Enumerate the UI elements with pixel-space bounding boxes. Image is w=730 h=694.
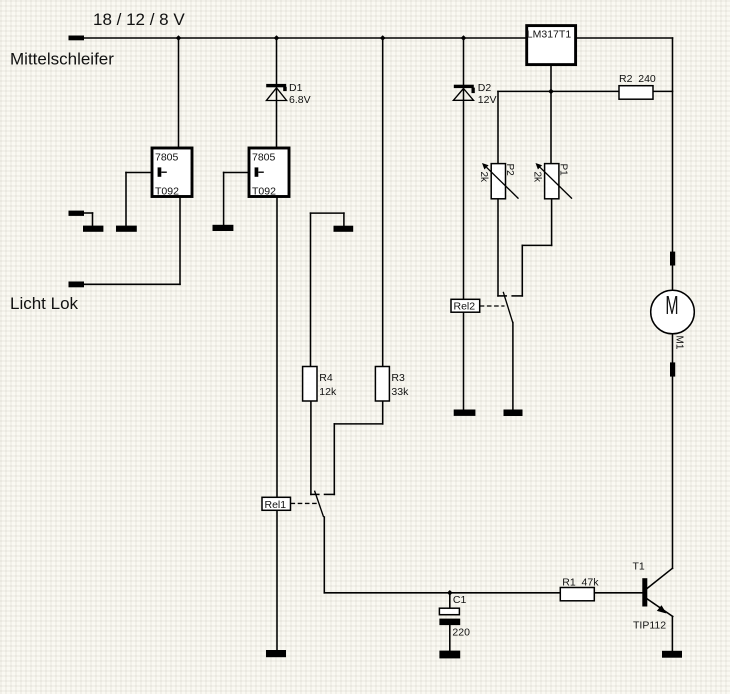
svg-text:C1: C1 xyxy=(453,594,467,606)
svg-text:T092: T092 xyxy=(155,185,179,197)
svg-text:R1 47k: R1 47k xyxy=(562,576,599,588)
svg-text:P1: P1 xyxy=(557,164,568,177)
svg-text:Rel2: Rel2 xyxy=(454,301,476,313)
svg-text:2k: 2k xyxy=(478,172,489,184)
svg-text:7805: 7805 xyxy=(155,152,179,164)
svg-text:33k: 33k xyxy=(391,386,409,398)
svg-text:LM317T1: LM317T1 xyxy=(527,28,572,40)
svg-text:R4: R4 xyxy=(319,372,333,384)
svg-text:Mittelschleifer: Mittelschleifer xyxy=(10,49,114,68)
svg-text:D2: D2 xyxy=(478,82,492,94)
svg-text:D1: D1 xyxy=(289,82,303,94)
svg-text:R2 240: R2 240 xyxy=(619,73,656,85)
svg-text:18 / 12 / 8 V: 18 / 12 / 8 V xyxy=(93,10,185,29)
svg-text:Licht Lok: Licht Lok xyxy=(10,294,79,313)
svg-text:2k: 2k xyxy=(531,172,542,184)
svg-text:220: 220 xyxy=(452,627,470,639)
svg-text:M1: M1 xyxy=(673,336,684,350)
svg-text:12k: 12k xyxy=(319,386,337,398)
svg-text:6.8V: 6.8V xyxy=(289,94,311,106)
svg-text:T1: T1 xyxy=(633,561,645,573)
svg-text:TIP112: TIP112 xyxy=(633,620,666,632)
svg-text:M: M xyxy=(665,292,678,320)
svg-text:T092: T092 xyxy=(252,185,276,197)
svg-text:P2: P2 xyxy=(504,164,515,177)
svg-text:R3: R3 xyxy=(391,372,405,384)
svg-text:7805: 7805 xyxy=(252,152,276,164)
svg-text:Rel1: Rel1 xyxy=(265,499,287,511)
svg-text:12V: 12V xyxy=(478,94,497,106)
